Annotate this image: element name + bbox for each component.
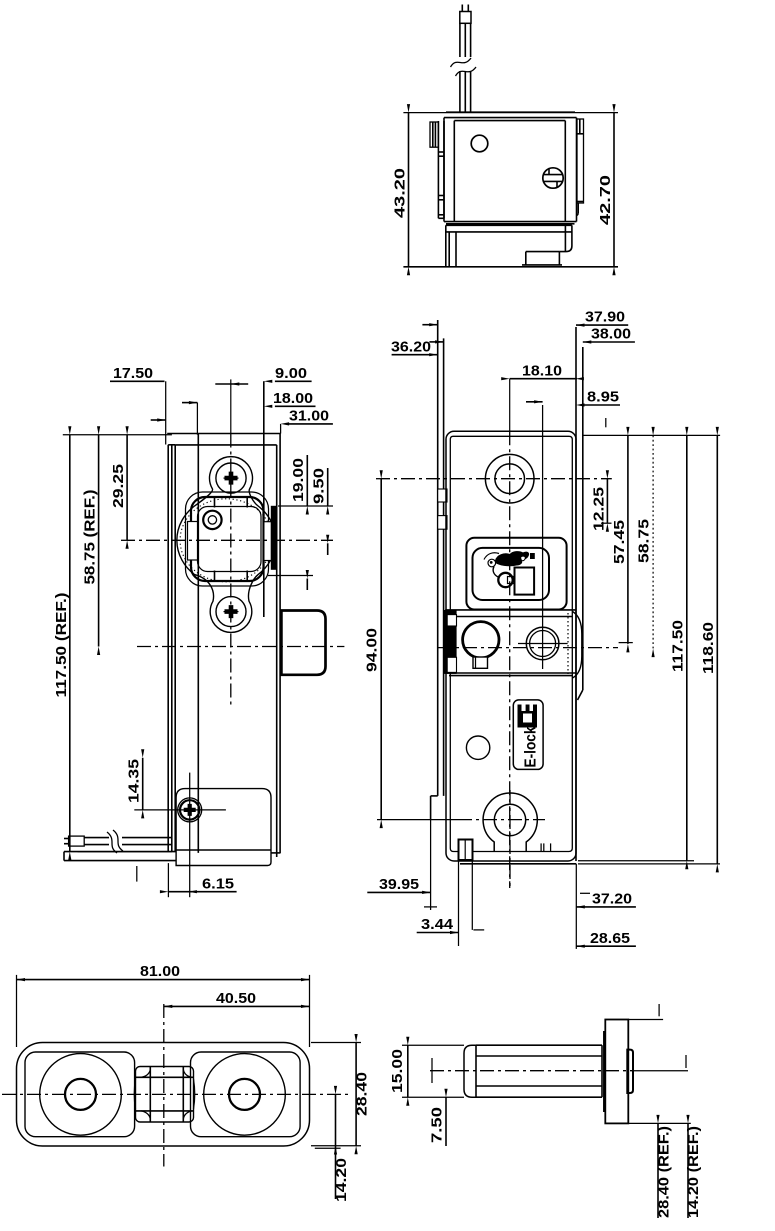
E-lock label <box>513 700 543 770</box>
left side strip <box>437 121 439 218</box>
bracket stub <box>525 252 527 265</box>
top screw <box>216 463 246 493</box>
label square <box>515 568 535 595</box>
svg-text:29.25: 29.25 <box>111 464 127 508</box>
bottom left tab <box>459 840 473 861</box>
plate outline <box>17 1043 310 1147</box>
svg-text:18.00: 18.00 <box>273 391 313 407</box>
flange bottom ext <box>628 1122 691 1124</box>
svg-text:39.95: 39.95 <box>379 877 419 893</box>
dim 40.50 <box>164 1005 310 1007</box>
latch bolt side <box>281 611 325 675</box>
plate foot <box>64 851 176 853</box>
right boss circle <box>204 1054 286 1136</box>
center nut <box>136 1067 194 1123</box>
svg-text:117.50 (REF.): 117.50 (REF.) <box>54 592 70 697</box>
latch opening inner square <box>198 507 262 572</box>
right side tab <box>577 119 584 203</box>
svg-text:14.20 (REF.): 14.20 (REF.) <box>686 1126 702 1218</box>
pin cylinder <box>476 1044 602 1046</box>
svg-text:38.00: 38.00 <box>591 327 631 343</box>
dim 36.20 <box>392 354 438 356</box>
dim 118.60 <box>716 435 718 864</box>
dim 18.00 <box>275 405 316 407</box>
bracket plate edge-on left <box>437 320 439 796</box>
small circle lower left <box>466 736 489 759</box>
dim 9.00 <box>275 380 312 382</box>
padlock icon <box>498 573 512 587</box>
keyhole label inner <box>473 548 550 600</box>
dim 38.00 <box>583 341 635 343</box>
dim 28.40 <box>311 1042 361 1044</box>
svg-text:3.44: 3.44 <box>421 917 454 933</box>
centerlines front view <box>376 478 612 480</box>
plate tabs left <box>438 489 447 502</box>
dim 37.20 <box>575 864 577 949</box>
bottom right ext lines <box>578 860 694 862</box>
dim 29.25 <box>126 435 128 541</box>
bottom circle boss <box>483 793 537 851</box>
dim 7.50 <box>445 1097 447 1146</box>
bird icon <box>488 559 496 567</box>
latch opening flange <box>186 492 269 586</box>
label small mark <box>531 554 535 559</box>
right bulge <box>573 612 582 679</box>
svg-text:14.20: 14.20 <box>334 1158 350 1202</box>
bottom ext line <box>78 851 172 853</box>
svg-text:37.20: 37.20 <box>592 892 632 908</box>
pin flange <box>605 1020 628 1124</box>
dim 14.20 REF <box>687 1123 689 1218</box>
svg-text:40.50: 40.50 <box>216 991 256 1007</box>
faceplate edge line <box>263 381 265 617</box>
svg-text:12.25: 12.25 <box>591 487 607 531</box>
svg-text:15.00: 15.00 <box>390 1049 406 1093</box>
face boss silhouette <box>177 457 276 633</box>
mid right circle <box>526 627 559 660</box>
dim 43.20 <box>408 113 410 267</box>
dim 9.50 <box>327 468 329 506</box>
dim 81.00 <box>16 975 18 1047</box>
centerlines strike plate <box>2 1093 348 1095</box>
dim 117.50 REF <box>63 434 172 436</box>
svg-text:117.50: 117.50 <box>670 620 686 672</box>
pin hole in opening <box>203 511 221 529</box>
svg-text:43.20: 43.20 <box>393 168 409 218</box>
left boss circle <box>40 1054 122 1136</box>
svg-text:28.40: 28.40 <box>355 1072 371 1116</box>
wire exit <box>84 837 109 839</box>
svg-text:E-lock: E-lock <box>523 726 540 767</box>
flange top ext <box>628 1019 663 1021</box>
dim 57.45 <box>627 435 629 644</box>
keyhole label outer <box>466 538 566 610</box>
svg-text:42.70: 42.70 <box>598 175 614 225</box>
body outline <box>446 431 576 861</box>
svg-text:17.50: 17.50 <box>113 366 153 382</box>
black bar left of band <box>444 611 456 674</box>
mounting plate edge-on <box>167 445 169 852</box>
svg-text:18.10: 18.10 <box>522 363 562 379</box>
bottom edge notch <box>540 843 542 851</box>
dim 19.00 <box>278 505 333 507</box>
dim 6.15 <box>167 863 169 897</box>
left connector lug <box>430 122 438 147</box>
dim 37.90 <box>576 324 628 326</box>
left boss square <box>25 1052 135 1137</box>
dim 3.44 <box>458 860 460 946</box>
svg-text:58.75 (REF.): 58.75 (REF.) <box>83 489 99 584</box>
svg-text:94.00: 94.00 <box>365 628 381 672</box>
box body <box>446 111 575 113</box>
box hole <box>471 135 488 152</box>
svg-text:7.50: 7.50 <box>430 1107 446 1143</box>
cable break symbol <box>451 58 477 76</box>
svg-text:58.75: 58.75 <box>637 519 653 563</box>
latch tab below circle <box>473 657 488 668</box>
bottom screw of housing <box>178 798 202 822</box>
right hole <box>229 1079 260 1110</box>
dim 18.10 <box>510 378 577 380</box>
svg-text:9.50: 9.50 <box>312 468 328 504</box>
bracket base line <box>403 266 618 268</box>
cable <box>461 5 463 13</box>
motor housing bottom <box>176 789 271 866</box>
svg-text:36.20: 36.20 <box>391 339 431 355</box>
centerlines side view <box>137 646 344 648</box>
dim 58.75 REF <box>98 435 100 647</box>
bridge ticks top/bottom of opening <box>214 496 216 508</box>
svg-text:28.65: 28.65 <box>590 931 630 947</box>
svg-text:6.15: 6.15 <box>202 876 234 892</box>
mounting bracket below box <box>446 224 572 226</box>
top circle (cylinder hole) <box>485 454 534 503</box>
svg-text:118.60: 118.60 <box>701 622 717 674</box>
dim 28.65 <box>576 945 636 947</box>
svg-text:37.90: 37.90 <box>585 310 625 326</box>
mid band (latch section) <box>445 609 575 611</box>
wire break symbol <box>107 830 123 853</box>
left hole <box>65 1079 96 1110</box>
dim 8.95 <box>583 404 620 406</box>
dim 14.20 <box>315 1147 341 1149</box>
dim 17.50 <box>110 380 165 382</box>
dim 42.70 <box>613 113 615 267</box>
faceplate edge black bar <box>271 506 277 569</box>
svg-text:14.35: 14.35 <box>127 759 143 803</box>
latch bolt circle <box>463 622 499 658</box>
dim 58.75 <box>652 435 654 648</box>
dim 14.35 <box>142 758 144 810</box>
svg-text:57.45: 57.45 <box>612 520 628 564</box>
right side plate edge-on <box>575 327 577 861</box>
dim 12.25 <box>606 479 608 524</box>
screw on box <box>543 168 563 188</box>
dim 39.95 <box>430 820 432 910</box>
svg-text:9.00: 9.00 <box>275 366 307 382</box>
dim 28.40 REF <box>657 1123 659 1218</box>
svg-text:31.00: 31.00 <box>289 409 329 425</box>
svg-text:19.00: 19.00 <box>291 458 307 502</box>
dim 31.00 <box>288 423 333 425</box>
lock body side <box>167 433 280 435</box>
inner ellipse of boss <box>180 499 272 582</box>
svg-text:8.95: 8.95 <box>587 390 619 406</box>
top extension line <box>403 112 618 114</box>
latch opening bold square <box>191 497 264 581</box>
pin head <box>627 1050 633 1093</box>
top right ext line <box>583 434 720 436</box>
svg-text:81.00: 81.00 <box>140 964 180 980</box>
dim 94.00 <box>380 479 382 820</box>
dim 15.00 <box>402 1044 464 1046</box>
right boss square <box>191 1052 301 1137</box>
centerline pin <box>430 1070 633 1072</box>
plate bottom notch <box>431 795 438 797</box>
svg-text:28.40 (REF.): 28.40 (REF.) <box>657 1126 673 1218</box>
dim 117.50 <box>686 435 688 860</box>
side tabs of opening <box>188 522 198 561</box>
bottom screw <box>216 597 246 627</box>
